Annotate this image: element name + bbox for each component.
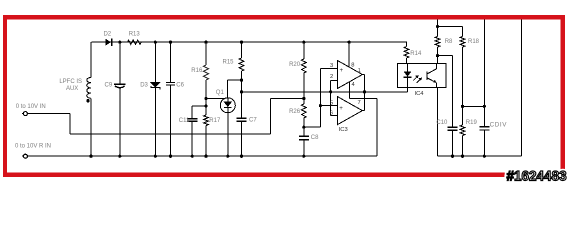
node dot C7 bottom rail	[240, 155, 243, 158]
svg-text:D3: D3	[140, 82, 148, 88]
wire left vertical from rail corner to inductor	[90, 42, 92, 77]
inductor L1 LPFC IS AUX winding	[87, 78, 91, 99]
node dot above C6	[169, 41, 172, 44]
node dot R16 bottom	[204, 97, 207, 100]
svg-text:C6: C6	[176, 82, 184, 88]
node dot inductor bottom rail	[89, 155, 92, 158]
wire top rail	[91, 41, 406, 43]
diode D2	[106, 39, 111, 45]
svg-text:#1624483: #1624483	[507, 168, 568, 183]
wire pin3 lead	[320, 68, 337, 70]
op-amp IC3 B	[338, 97, 363, 125]
svg-text:C7: C7	[249, 117, 257, 123]
resistor R26	[301, 104, 306, 118]
node dot R17 bottom rail	[204, 155, 207, 158]
node dot C6 bottom rail	[169, 155, 172, 158]
resistor R16	[205, 42, 207, 65]
svg-text:AUX: AUX	[66, 86, 78, 92]
wire collector riser	[437, 56, 439, 64]
resistor R8	[435, 37, 440, 48]
wire pin8 riser	[348, 41, 351, 44]
wire to C11	[192, 105, 206, 107]
svg-text:C9: C9	[105, 83, 113, 89]
resistor R13	[127, 40, 141, 44]
svg-text:3: 3	[330, 63, 333, 69]
node dot feedback tap	[240, 90, 243, 93]
capacitor C7	[241, 80, 243, 118]
svg-text:CDIV: CDIV	[490, 122, 508, 129]
capacitor C11	[191, 106, 193, 119]
svg-text:R20: R20	[289, 62, 301, 68]
node dot above R15	[240, 41, 243, 44]
wire CDIV riser under border	[483, 16, 485, 127]
wire right bottom rail	[438, 155, 522, 157]
svg-text:R19: R19	[466, 120, 478, 126]
op-amp IC3 A	[338, 61, 363, 89]
svg-text:R13: R13	[129, 31, 141, 37]
wire R16 bottom to Q1 cathode riser	[206, 98, 225, 100]
capacitor C8	[303, 127, 305, 136]
wire LED cathode riser	[407, 88, 409, 92]
node dot D3 bottom rail	[154, 155, 157, 158]
node dot above R20	[302, 41, 305, 44]
wire Q1 anode down	[227, 113, 229, 156]
shunt regulator Q1	[220, 98, 235, 113]
svg-text:7: 7	[358, 100, 361, 106]
node dot R26 top	[302, 97, 305, 100]
node dot R18 bottom	[461, 105, 464, 108]
svg-text:R18: R18	[468, 39, 480, 45]
node dot C10 bottom rail	[451, 155, 454, 158]
svg-text:R16: R16	[191, 68, 203, 74]
wire pin5 lead	[320, 105, 337, 107]
wire R8 to C10	[438, 55, 453, 57]
resistor R20	[303, 42, 305, 59]
svg-text:R17: R17	[209, 118, 221, 124]
svg-text:+: +	[339, 67, 343, 74]
wire Q1 cathode riser	[227, 80, 229, 98]
svg-text:D2: D2	[103, 31, 111, 37]
capacitor C9 (polarized)	[119, 42, 121, 84]
wire feedback output to R15 node	[242, 91, 408, 93]
svg-text:0 to 10V R IN: 0 to 10V R IN	[15, 144, 51, 150]
svg-text:8: 8	[351, 62, 354, 68]
node dot above R16	[204, 41, 207, 44]
terminal 0 to 10V IN	[23, 112, 27, 116]
svg-text:C8: C8	[311, 135, 319, 141]
svg-text:C10: C10	[436, 120, 448, 126]
svg-text:0 to 10V IN: 0 to 10V IN	[16, 104, 46, 110]
wire output bus pin1 to pin7	[362, 74, 364, 76]
node dot C8 bottom rail	[302, 155, 305, 158]
wire R26 bottom to pin5 riser	[304, 126, 321, 128]
node dot Q1 anode rail	[226, 155, 229, 158]
wire pin2/pin6 riser	[330, 81, 332, 116]
node dot R8 bottom	[436, 54, 439, 57]
svg-text:IC4: IC4	[415, 91, 425, 97]
node dot output on feedback wire	[363, 90, 366, 93]
resistor R17	[204, 115, 209, 126]
svg-text:5: 5	[330, 100, 333, 106]
svg-text:IC3: IC3	[339, 127, 348, 133]
svg-text:R8: R8	[445, 39, 453, 45]
node dot C9 bottom rail	[118, 155, 121, 158]
node dot C11 tap	[204, 104, 207, 107]
node dot above C9	[118, 41, 121, 44]
terminal 0 to 10V R IN	[23, 154, 27, 158]
svg-text:LPFC IS: LPFC IS	[59, 79, 82, 85]
svg-text:1: 1	[358, 68, 361, 74]
node dot CDIV bottom rail	[483, 155, 486, 158]
node dot C11 bottom rail	[191, 155, 194, 158]
resistor R18	[460, 37, 465, 48]
node dot V+	[436, 25, 439, 28]
node dot R15 bottom	[240, 79, 243, 82]
wire pin5/pin3 riser	[319, 69, 321, 128]
wire pin2 lead	[331, 80, 338, 82]
svg-text:C11: C11	[179, 118, 190, 124]
svg-text:6: 6	[330, 111, 333, 117]
wire V+ to R18	[438, 26, 463, 28]
node dot CDIV top	[483, 105, 486, 108]
IC4 LED	[407, 64, 409, 72]
wire pin6 lead	[331, 115, 338, 117]
capacitor CDIV	[479, 126, 489, 128]
resistor R15	[241, 42, 243, 58]
svg-text:+: +	[339, 105, 343, 112]
capacitor C6	[170, 42, 172, 82]
node dot pin5 tap	[319, 104, 322, 107]
wire bottom rail	[27, 155, 377, 157]
IC4 light arrows	[413, 76, 418, 81]
IC4 phototransistor	[426, 72, 428, 81]
capacitor C10	[448, 126, 458, 128]
wire emitter down to rail	[437, 88, 439, 157]
resistor R14	[406, 41, 407, 43]
node dot pin2 riser on feedback	[329, 90, 332, 93]
svg-text:R14: R14	[410, 51, 422, 57]
resistor R19	[460, 125, 465, 136]
wire Q1 cathode to R15	[228, 79, 242, 81]
zener diode D3	[154, 42, 156, 82]
svg-text:R26: R26	[289, 109, 301, 115]
wire IN terminal run	[27, 113, 70, 115]
svg-text:2: 2	[330, 74, 333, 80]
node dot above D3	[154, 41, 157, 44]
optocoupler IC4 box	[398, 64, 446, 88]
svg-text:R15: R15	[222, 59, 234, 65]
inductor polarity dot	[86, 99, 89, 102]
node dot R26 bottom	[302, 126, 305, 129]
wire V+ riser under border	[437, 16, 439, 27]
wire pin4 ground route	[349, 82, 351, 99]
svg-text:Q1: Q1	[216, 90, 225, 96]
node dot R19 bottom rail	[461, 155, 464, 158]
wire R18 to CDIV	[463, 105, 485, 107]
